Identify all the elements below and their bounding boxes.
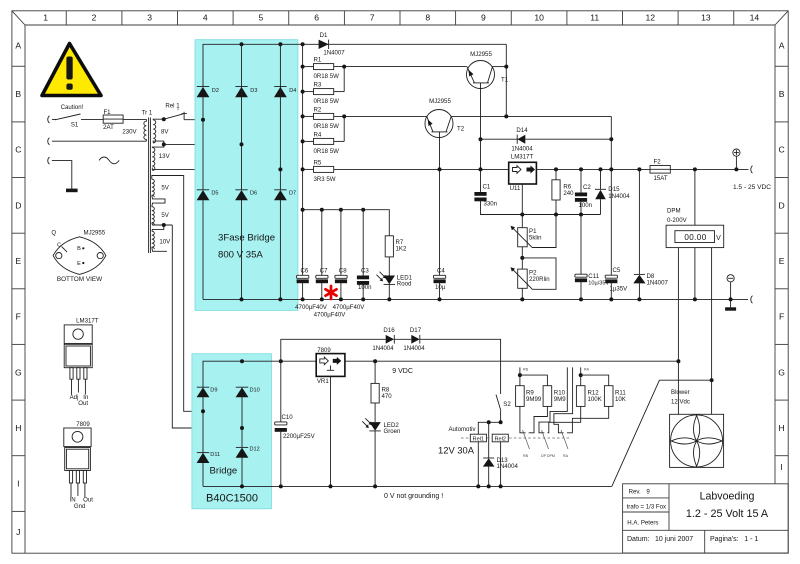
- svg-text:R4: R4: [314, 131, 322, 138]
- potentiometer P1 5klin: [511, 215, 557, 258]
- svg-text:8: 8: [425, 13, 430, 23]
- svg-text:3: 3: [147, 13, 152, 23]
- secondary 5V winding 1: [152, 176, 184, 207]
- svg-text:C: C: [778, 145, 784, 155]
- svg-text:B: B: [779, 89, 785, 99]
- svg-text:C3: C3: [361, 268, 369, 275]
- node R5 tap: [301, 167, 305, 171]
- relay contact DP DPM: [542, 430, 549, 449]
- resistor R2 0R18 5W: [303, 113, 334, 119]
- resistor R7 1K2: [385, 236, 393, 257]
- node 5V-10V junction: [162, 223, 166, 227]
- diode D15 1N4004: [595, 169, 606, 214]
- wire 13V bottom to D7 line: [158, 168, 280, 170]
- svg-text:D14: D14: [516, 127, 528, 134]
- diode D16 1N4004: [386, 335, 412, 344]
- svg-text:T2: T2: [457, 125, 465, 132]
- svg-text:5V: 5V: [161, 184, 169, 191]
- svg-text:G: G: [15, 367, 22, 377]
- diode D2: [197, 87, 210, 98]
- resistor R9 9M99: [516, 367, 548, 406]
- output plus connector arc: [751, 166, 753, 174]
- node R4 tap: [301, 139, 305, 143]
- node 8V-13V junction: [162, 142, 166, 146]
- capacitor C2 100n: [575, 169, 587, 214]
- svg-text:V: V: [716, 235, 721, 242]
- node bridge2 AC2: [240, 426, 244, 430]
- transistor T1 MJ2955: [467, 61, 507, 140]
- node C2 bottom: [579, 213, 583, 217]
- wire 9VDC rail: [345, 360, 679, 362]
- node T1 base / D14: [479, 137, 483, 141]
- voltage regulator VR1 7809: [316, 354, 345, 489]
- LED2 Groen: [362, 403, 381, 488]
- node T1 base bottom: [479, 167, 483, 171]
- node LM317 adj on bus: [520, 213, 524, 217]
- wire R11 step to contact: [567, 406, 609, 432]
- svg-text:C: C: [15, 145, 21, 155]
- svg-text:10 juni 2007: 10 juni 2007: [655, 536, 693, 543]
- svg-text:13V: 13V: [159, 153, 171, 160]
- svg-text:D: D: [15, 200, 21, 210]
- node D4 AC input: [278, 167, 282, 171]
- svg-text:3Fase Bridge: 3Fase Bridge: [218, 232, 275, 243]
- potentiometer P2 220Rlin: [511, 258, 557, 302]
- wire tap to D16 line: [281, 339, 386, 361]
- node C10 bottom: [279, 484, 283, 488]
- node T2 base: [438, 167, 442, 171]
- diode D7: [274, 190, 287, 201]
- node bridge2 AC1: [201, 409, 205, 413]
- op-amp U11 LM317T regulator box: [509, 162, 537, 227]
- resistor R10 9M9: [543, 386, 552, 407]
- svg-text:RA: RA: [584, 367, 590, 371]
- wire D7 column to 0V: [279, 200, 281, 300]
- secondary 8V winding: [153, 120, 156, 143]
- svg-text:VR1: VR1: [317, 378, 329, 385]
- wire 0V lower rail: [203, 485, 612, 487]
- resistor R1 0R18 5W: [303, 64, 334, 70]
- capacitor C5 1u35V: [605, 169, 617, 301]
- svg-text:Groen: Groen: [384, 428, 401, 435]
- transistor T2 MJ2955: [425, 110, 611, 170]
- svg-text:5: 5: [259, 13, 264, 23]
- svg-text:00.00: 00.00: [684, 233, 706, 242]
- blower fan: [670, 414, 724, 467]
- svg-text:RA: RA: [563, 454, 569, 458]
- svg-text:7809: 7809: [317, 347, 331, 354]
- node DPM plus tap: [693, 167, 697, 171]
- svg-text:H: H: [778, 423, 784, 433]
- LED1 Rood: [377, 257, 396, 302]
- capacitor C8 4700uF40V: [335, 210, 347, 302]
- svg-text:4700µF40V: 4700µF40V: [333, 304, 366, 311]
- svg-text:D7: D7: [289, 191, 296, 197]
- wire R12 step to contact: [548, 406, 581, 432]
- capacitor C4 10u: [434, 169, 446, 301]
- relay contact Rel 1: [164, 109, 203, 120]
- svg-text:H.A. Peters: H.A. Peters: [627, 520, 658, 527]
- title block: [623, 484, 789, 553]
- primary winding 230V: [144, 119, 147, 141]
- svg-text:330n: 330n: [484, 201, 498, 208]
- node R2 tap: [301, 114, 305, 118]
- svg-text:T1: T1: [501, 76, 509, 83]
- capacitor C7 4700uF40V: [316, 210, 328, 302]
- wire DPM dp lead: [711, 248, 713, 381]
- svg-text:1N4007: 1N4007: [647, 280, 669, 287]
- svg-text:D6: D6: [250, 191, 257, 197]
- capacitor C11 10u35V: [575, 215, 587, 302]
- svg-text:MJ2955: MJ2955: [470, 51, 492, 58]
- svg-text:B40C1500: B40C1500: [206, 492, 258, 504]
- svg-text:Pagina's:: Pagina's:: [710, 536, 739, 543]
- svg-text:1: 1: [43, 13, 48, 23]
- node R8 tap: [373, 359, 377, 363]
- svg-text:D17: D17: [410, 327, 422, 334]
- svg-text:C: C: [57, 242, 61, 248]
- svg-text:9M9: 9M9: [554, 396, 566, 403]
- diode D1 1N4007: [319, 40, 329, 49]
- diode D11: [197, 453, 210, 487]
- wire DPM supply lead: [677, 248, 679, 415]
- svg-text:0R18 5W: 0R18 5W: [314, 123, 340, 130]
- svg-text:BOTTOM VIEW: BOTTOM VIEW: [57, 276, 103, 283]
- svg-text:B: B: [77, 246, 81, 252]
- svg-text:1N4007: 1N4007: [323, 49, 345, 56]
- wire D5 column to 0V: [202, 200, 204, 300]
- wire bridge top bus: [203, 44, 506, 87]
- svg-text:R1: R1: [314, 57, 322, 64]
- svg-text:C6: C6: [301, 268, 309, 275]
- svg-text:A: A: [15, 41, 21, 51]
- wire R9 lead to contact: [520, 406, 526, 432]
- wire N to transformer: [52, 140, 146, 142]
- svg-text:I: I: [17, 479, 19, 489]
- svg-text:6: 6: [314, 13, 319, 23]
- svg-text:C10: C10: [282, 414, 294, 421]
- svg-text:Q: Q: [51, 230, 56, 237]
- svg-text:DPM: DPM: [667, 208, 681, 215]
- svg-text:D1: D1: [320, 32, 328, 39]
- svg-text:D12: D12: [250, 446, 260, 452]
- svg-text:D15: D15: [608, 186, 620, 193]
- wire S2 to relay coils: [478, 420, 502, 434]
- node C10 top: [279, 359, 283, 363]
- svg-text:Adj: Adj: [70, 394, 79, 401]
- wire D6 column to 0V: [241, 200, 243, 300]
- ground at minus terminal: [725, 299, 736, 310]
- capacitor C6 4700uF40V: [297, 275, 309, 301]
- svg-text:trafo = 1/3 Fox: trafo = 1/3 Fox: [627, 504, 666, 511]
- svg-text:RB: RB: [523, 367, 529, 371]
- capacitor C1 330n: [474, 169, 522, 214]
- node D2 AC input: [201, 118, 205, 122]
- svg-text:1N4004: 1N4004: [511, 145, 533, 152]
- svg-text:Out: Out: [78, 400, 88, 407]
- svg-text:4: 4: [203, 13, 208, 23]
- svg-text:S2: S2: [503, 401, 511, 408]
- wire R10 step to contact: [529, 406, 548, 432]
- svg-text:LM317T: LM317T: [76, 318, 99, 325]
- svg-text:1K2: 1K2: [396, 246, 407, 253]
- wire range line B to contact: [539, 367, 567, 432]
- svg-text:9 VDC: 9 VDC: [392, 368, 413, 375]
- svg-text:1 - 1: 1 - 1: [744, 536, 758, 543]
- diode D10: [236, 387, 249, 397]
- svg-text:7: 7: [370, 13, 375, 23]
- svg-text:Rel2: Rel2: [494, 437, 506, 443]
- svg-text:3R3 5W: 3R3 5W: [314, 176, 336, 183]
- secondary 13V winding: [152, 148, 158, 171]
- warning triangle: [42, 44, 101, 96]
- diode D9: [197, 387, 210, 397]
- dashed mechanical link: [461, 437, 571, 439]
- resistor R6 240: [552, 169, 560, 214]
- svg-text:9: 9: [481, 13, 486, 23]
- svg-text:12 Vdc: 12 Vdc: [671, 399, 690, 406]
- svg-text:1.5 - 25 VDC: 1.5 - 25 VDC: [733, 184, 771, 191]
- mains connector N arc: [48, 138, 50, 145]
- svg-text:C8: C8: [339, 268, 347, 275]
- wire 8V top to Rel 1: [162, 117, 166, 121]
- svg-text:7809: 7809: [76, 421, 90, 428]
- svg-text:9M99: 9M99: [526, 396, 542, 403]
- bridge rectifier highlight box: [192, 354, 272, 509]
- ground PE: [66, 189, 78, 193]
- svg-text:Automotiv: Automotiv: [448, 426, 476, 433]
- node D8 top: [637, 167, 641, 171]
- node D6 0V: [240, 297, 244, 301]
- capacitor C3 100n: [357, 210, 369, 302]
- svg-text:Rev.: Rev.: [629, 489, 641, 496]
- svg-text:F: F: [16, 312, 21, 322]
- svg-text:0R18 5W: 0R18 5W: [314, 148, 340, 155]
- svg-text:Labvoeding: Labvoeding: [700, 491, 755, 503]
- svg-text:1.2 - 25 Volt 15 A: 1.2 - 25 Volt 15 A: [686, 508, 769, 520]
- AC tilde symbol: [99, 157, 119, 164]
- svg-text:Datum:: Datum:: [627, 536, 650, 543]
- svg-text:MJ2955: MJ2955: [429, 98, 451, 105]
- svg-text:A: A: [779, 41, 785, 51]
- relay coil Rel1: [470, 434, 486, 488]
- svg-text:R5: R5: [314, 159, 322, 166]
- svg-text:R2: R2: [314, 106, 322, 113]
- secondary 10V winding: [152, 231, 167, 251]
- diode D6: [235, 190, 248, 201]
- resistor R4 0R18 5W: [303, 138, 334, 144]
- svg-text:Caution!: Caution!: [61, 104, 84, 111]
- svg-text:MJ2955: MJ2955: [84, 230, 106, 237]
- svg-text:E: E: [15, 256, 21, 266]
- diode D4: [274, 87, 287, 98]
- svg-text:D4: D4: [289, 88, 296, 94]
- svg-text:Blower: Blower: [671, 389, 690, 396]
- wire T1 base to R5 line: [480, 139, 482, 169]
- svg-text:0-200V: 0-200V: [667, 217, 688, 224]
- wire F1 to transformer: [123, 118, 146, 120]
- svg-text:C7: C7: [320, 268, 328, 275]
- wire range line A to contact: [554, 367, 573, 432]
- svg-text:1N4004: 1N4004: [372, 345, 394, 352]
- node D3 AC input: [240, 142, 244, 146]
- wire D9-D11 column: [202, 397, 204, 453]
- svg-text:E: E: [77, 261, 81, 267]
- svg-text:1N4004: 1N4004: [403, 345, 425, 352]
- diode D17 1N4004: [411, 335, 420, 344]
- wire PE to ground: [52, 161, 72, 190]
- capacitor C10 2200uF25V: [275, 361, 287, 486]
- resistor R5 3R3 5W: [303, 166, 334, 172]
- svg-text:4700µF40V: 4700µF40V: [314, 312, 347, 319]
- main + bus vertical: [302, 44, 304, 275]
- relay coil Rel2: [492, 434, 508, 488]
- wire 5V tap to lower bridge AC2: [172, 225, 241, 428]
- wire 0V rail: [203, 298, 748, 300]
- node R6 bottom: [554, 213, 558, 217]
- svg-text:2AT: 2AT: [103, 124, 114, 131]
- svg-text:10K: 10K: [615, 396, 626, 403]
- node main bus top: [301, 42, 305, 46]
- svg-text:1µ35V: 1µ35V: [610, 285, 629, 292]
- svg-text:240: 240: [563, 190, 574, 197]
- svg-text:14: 14: [750, 13, 760, 23]
- svg-text:S1: S1: [71, 121, 79, 128]
- wire 5V top to lower bridge AC1: [183, 176, 203, 412]
- red asterisk marker: [326, 286, 337, 299]
- 3-phase bridge highlight box: [195, 40, 298, 311]
- node output plus: [734, 167, 738, 171]
- resistor R11 10K: [604, 386, 613, 407]
- resistor R3 0R18 5W: [303, 89, 334, 95]
- svg-text:J: J: [16, 527, 20, 537]
- capacitor bank bus: [303, 208, 390, 236]
- node cap bank tap: [301, 208, 305, 212]
- fuse F2 15AT: [650, 166, 670, 174]
- node D7 0V: [278, 297, 282, 301]
- svg-text:220Rlin: 220Rlin: [529, 276, 550, 283]
- node R1 tap: [301, 65, 305, 69]
- svg-text:0R18 5W: 0R18 5W: [314, 73, 340, 80]
- svg-text:LM317T: LM317T: [511, 154, 534, 161]
- svg-text:Gnd: Gnd: [74, 503, 86, 510]
- output minus connector arc: [751, 296, 753, 304]
- switch S2: [496, 395, 501, 423]
- svg-text:D2: D2: [212, 88, 219, 94]
- svg-text:D3: D3: [250, 88, 257, 94]
- svg-text:D11: D11: [210, 452, 220, 458]
- svg-text:F: F: [779, 312, 784, 322]
- svg-text:D5: D5: [211, 191, 218, 197]
- svg-text:Rood: Rood: [397, 281, 412, 288]
- wire bridge2 plus bus: [203, 361, 316, 387]
- svg-text:DP DPM: DP DPM: [541, 454, 555, 458]
- svg-text:10: 10: [534, 13, 544, 23]
- diode D3: [235, 87, 248, 98]
- svg-text:11: 11: [590, 13, 599, 23]
- mains connector L arc: [48, 116, 50, 123]
- node 9V to DPM/blower: [676, 359, 680, 363]
- wire R5 to regulator input: [334, 168, 509, 170]
- resistor R8 470: [371, 361, 379, 403]
- svg-text:100n: 100n: [358, 284, 372, 291]
- diode D12: [236, 447, 249, 486]
- wire 8V/13V tap to D3 line: [164, 143, 242, 145]
- svg-text:10µ: 10µ: [435, 284, 446, 291]
- svg-text:B: B: [15, 89, 21, 99]
- node P1-P2 junction: [520, 256, 524, 260]
- terminal plus: [733, 149, 740, 169]
- wire collector feed down: [610, 116, 612, 169]
- svg-text:C1: C1: [483, 184, 491, 191]
- svg-text:U11: U11: [510, 185, 521, 192]
- svg-text:C4: C4: [437, 268, 445, 275]
- svg-text:2200µF25V: 2200µF25V: [283, 433, 316, 440]
- wire blower return: [612, 378, 714, 486]
- svg-text:2: 2: [92, 13, 97, 23]
- svg-text:D: D: [778, 200, 784, 210]
- svg-text:12: 12: [646, 13, 656, 23]
- diode D5: [197, 190, 210, 201]
- svg-text:8V: 8V: [161, 128, 169, 135]
- svg-text:1N4004: 1N4004: [497, 463, 519, 470]
- wire R2-R4 join: [334, 114, 427, 141]
- wire DPM minus to 0V: [693, 248, 697, 302]
- DPM digital panel meter: [666, 169, 724, 247]
- node D12 bottom: [240, 484, 244, 488]
- node collector feed join: [609, 167, 613, 171]
- node D15 top: [599, 167, 603, 171]
- secondary 5V winding 2: [152, 207, 173, 232]
- switch S1: [52, 114, 103, 120]
- svg-text:15AT: 15AT: [654, 175, 668, 182]
- wire collector bus: [504, 44, 508, 118]
- svg-text:470: 470: [382, 393, 393, 400]
- svg-text:D16: D16: [383, 327, 395, 334]
- svg-text:C5: C5: [613, 267, 621, 274]
- node D10 top: [240, 359, 244, 363]
- wire D4 column: [279, 44, 281, 190]
- node D4 top: [278, 42, 282, 46]
- svg-text:0 V not grounding !: 0 V not grounding !: [384, 493, 443, 500]
- fuse F1: [103, 115, 123, 123]
- svg-text:100n: 100n: [579, 202, 593, 209]
- svg-text:I: I: [780, 462, 782, 472]
- relay contact RA: [561, 430, 568, 449]
- svg-text:C11: C11: [588, 273, 599, 280]
- svg-text:F1: F1: [103, 109, 111, 116]
- svg-text:Bridge: Bridge: [210, 465, 238, 476]
- svg-text:D9: D9: [210, 388, 217, 394]
- wire D2 column: [202, 97, 204, 190]
- svg-text:100K: 100K: [588, 396, 602, 403]
- terminal minus: [727, 275, 734, 302]
- svg-text:5klin: 5klin: [529, 234, 542, 241]
- node D3 top: [240, 42, 244, 46]
- svg-text:800 V 35A: 800 V 35A: [218, 250, 263, 261]
- wire F2 to output: [670, 168, 748, 170]
- wire D10-D12 column: [241, 397, 243, 448]
- wire adj rail: [522, 214, 600, 216]
- TO-3 package MJ2955 bottom view: [53, 237, 106, 275]
- wire R1-R3 join: [334, 65, 467, 92]
- mains connector PE arc: [48, 157, 50, 164]
- diode D8 1N4007: [633, 169, 645, 301]
- node R3 tap: [301, 90, 305, 94]
- svg-text:13: 13: [701, 13, 711, 23]
- svg-text:E: E: [779, 256, 785, 266]
- svg-text:C2: C2: [583, 184, 591, 191]
